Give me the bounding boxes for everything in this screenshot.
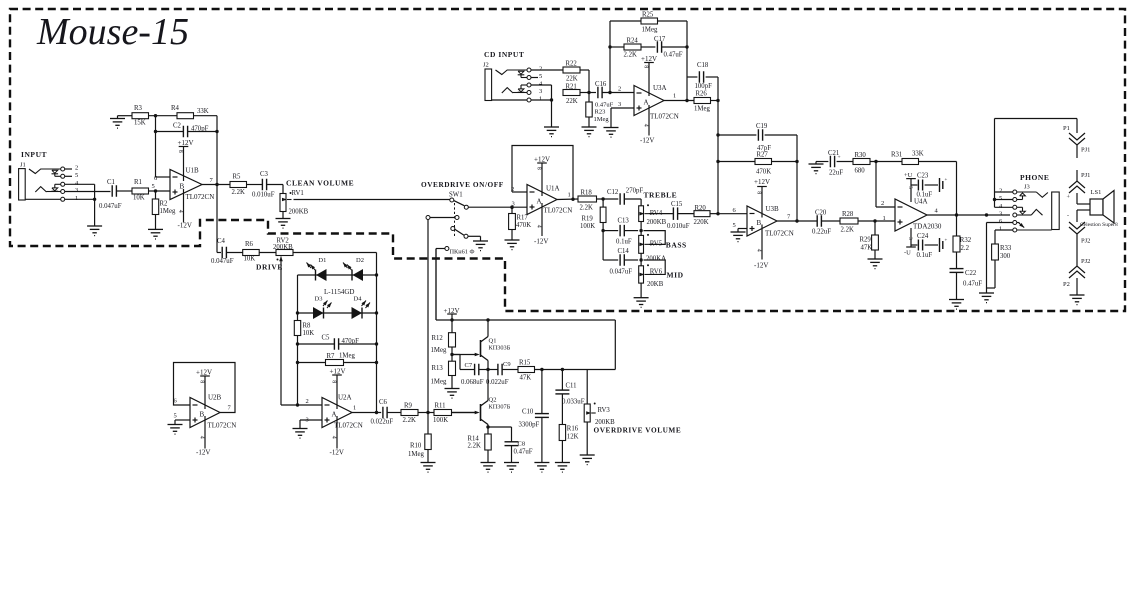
ground under R23 <box>582 127 597 137</box>
svg-text:2: 2 <box>539 66 542 73</box>
svg-text:A: A <box>644 99 649 107</box>
diode row1 wire <box>298 273 379 276</box>
label Celestion <box>1067 213 1118 228</box>
svg-text:R3: R3 <box>134 105 143 112</box>
svg-text:D1: D1 <box>318 257 326 264</box>
svg-text:R13: R13 <box>432 365 444 372</box>
svg-text:R9: R9 <box>404 403 413 410</box>
connector PJ1 <box>1069 145 1085 193</box>
svg-text:PJ2: PJ2 <box>1081 238 1090 245</box>
svg-text:1Meg: 1Meg <box>339 353 355 360</box>
svg-text:270pF: 270pF <box>626 188 644 195</box>
label BASS <box>666 240 687 249</box>
capacitor C9 0.022uF <box>486 361 518 386</box>
capacitor C7 0.068uF <box>452 355 490 387</box>
svg-text:R10: R10 <box>410 443 422 450</box>
ground under RV6 <box>634 298 649 308</box>
svg-text:4: 4 <box>177 210 183 213</box>
svg-text:-12V: -12V <box>330 449 344 457</box>
power rails U1B <box>177 139 194 230</box>
switch SW1 pole2 throw2 <box>436 247 449 321</box>
svg-text:8: 8 <box>177 150 183 153</box>
svg-text:+12V: +12V <box>641 55 657 63</box>
feedback left rail U3A <box>608 21 611 93</box>
svg-text:1: 1 <box>883 215 886 222</box>
resistor R2 1Meg <box>152 191 176 229</box>
svg-text:R26: R26 <box>696 91 708 98</box>
svg-text:1: 1 <box>539 96 542 103</box>
svg-text:R21: R21 <box>566 84 577 91</box>
wire RV2 right down to U2A out <box>375 253 378 415</box>
svg-text:R6: R6 <box>245 241 254 248</box>
svg-text:U3A: U3A <box>653 84 667 92</box>
wire U1B out down to C4 <box>217 185 221 253</box>
svg-text:1Meg: 1Meg <box>431 347 447 354</box>
svg-text:C5: C5 <box>322 335 331 342</box>
svg-text:R27: R27 <box>757 152 769 159</box>
power rails U2A <box>330 368 346 457</box>
svg-text:2.2K: 2.2K <box>580 205 593 212</box>
connector PJ2 lower <box>1069 234 1090 278</box>
svg-text:33K: 33K <box>197 108 209 115</box>
svg-text:1: 1 <box>568 192 571 199</box>
svg-text:TREBLE: TREBLE <box>644 191 678 200</box>
svg-text:J3: J3 <box>1024 184 1030 191</box>
feedback loop U1A <box>512 146 573 200</box>
svg-text:470K: 470K <box>516 222 531 229</box>
svg-text:1Meg: 1Meg <box>594 116 610 123</box>
label CLEAN VOLUME <box>286 179 354 188</box>
connector PJ2 upper <box>1069 218 1090 245</box>
svg-text:C12: C12 <box>607 189 619 196</box>
svg-text:U4A: U4A <box>914 198 928 206</box>
svg-text:R17: R17 <box>517 215 529 222</box>
resistor R27 470K <box>718 152 799 176</box>
svg-text:BASS: BASS <box>666 240 687 249</box>
svg-text:C2: C2 <box>173 123 182 130</box>
svg-text:+U: +U <box>904 172 913 179</box>
svg-text:4: 4 <box>755 249 761 252</box>
pin2 label U3A <box>618 86 621 93</box>
capacitor C17 0.47uF <box>654 36 687 59</box>
svg-text:C6: C6 <box>379 399 388 406</box>
svg-text:R8: R8 <box>303 323 312 330</box>
svg-text:3: 3 <box>75 187 78 194</box>
ground under R29 <box>868 259 883 269</box>
ground at U3B pin5 <box>731 232 746 242</box>
label DRIVE <box>256 263 283 272</box>
svg-text:INPUT: INPUT <box>21 150 47 159</box>
svg-text:1Meg: 1Meg <box>160 208 176 215</box>
svg-text:1: 1 <box>353 405 356 412</box>
svg-text:1Meg: 1Meg <box>694 106 710 113</box>
svg-text:0.010uF: 0.010uF <box>252 192 275 199</box>
svg-text:8: 8 <box>198 380 204 383</box>
svg-text:R5: R5 <box>233 174 242 181</box>
wire into U4A pin2 <box>876 162 895 208</box>
svg-text:R4: R4 <box>171 105 180 112</box>
svg-text:R28: R28 <box>842 211 854 218</box>
svg-text:A: A <box>537 198 542 206</box>
feedback wire U1B <box>156 116 218 185</box>
resistor R24 2.2K <box>610 38 655 59</box>
svg-text:2: 2 <box>999 188 1002 195</box>
wire into U2A pin2 <box>281 398 322 405</box>
op-amp U1A <box>511 185 578 215</box>
svg-text:100K: 100K <box>580 223 595 230</box>
switch SW1 pole1 <box>450 198 527 209</box>
ground at R3 <box>110 116 125 128</box>
svg-text:200KB: 200KB <box>647 219 667 226</box>
svg-text:8: 8 <box>330 380 336 383</box>
title Mouse-15 <box>36 11 189 53</box>
resistor R9 2.2K <box>401 403 434 424</box>
capacitor C12 270pF <box>607 188 643 205</box>
capacitor C20 0.22uF <box>812 210 840 236</box>
svg-text:200KB: 200KB <box>273 244 293 251</box>
resistor R1 10K <box>132 179 170 202</box>
svg-text:C4: C4 <box>217 238 226 245</box>
potentiometer RV4 200KB (treble) <box>639 199 673 235</box>
svg-text:TL072CN: TL072CN <box>334 422 363 430</box>
svg-text:C24: C24 <box>917 233 929 240</box>
svg-text:Q2: Q2 <box>489 397 497 404</box>
resistor R25 1Meg <box>610 12 687 34</box>
op-amp U1B <box>154 167 230 202</box>
LED net left rail <box>296 275 299 407</box>
svg-text:1Meg: 1Meg <box>408 451 424 458</box>
svg-text:+: + <box>945 239 948 244</box>
resistor R30 680 <box>853 152 902 175</box>
svg-text:R29: R29 <box>860 237 872 244</box>
ground under speaker chain <box>1070 295 1085 305</box>
svg-text:1: 1 <box>999 226 1002 233</box>
label MID <box>667 271 684 280</box>
svg-text:C9: C9 <box>503 361 511 368</box>
svg-text:-12V: -12V <box>196 449 210 457</box>
resistor R18 2.2K <box>578 190 618 212</box>
svg-text:J1: J1 <box>20 162 26 169</box>
capacitor C11 0.033uF <box>555 370 584 425</box>
svg-text:U1A: U1A <box>546 185 560 193</box>
op-amp U3B <box>733 205 818 238</box>
feedback right rail U3B <box>795 135 798 223</box>
ground at C21 <box>809 162 824 174</box>
svg-text:C13: C13 <box>618 218 630 225</box>
capacitor C3 0.010uF <box>252 171 283 199</box>
svg-text:U2B: U2B <box>208 394 222 402</box>
resistor R8 10K <box>294 321 314 338</box>
ground under R13 <box>445 389 460 399</box>
wire J3 pin6 to ground <box>986 223 988 294</box>
svg-text:100pF: 100pF <box>695 83 713 90</box>
svg-text:12K: 12K <box>567 434 579 441</box>
svg-text:5: 5 <box>999 195 1002 202</box>
svg-text:R16: R16 <box>567 426 579 433</box>
capacitor C2 470pF <box>154 123 219 138</box>
resistor R32 2.2 <box>953 215 972 269</box>
svg-text:0.47uF: 0.47uF <box>664 52 683 59</box>
svg-text:200KA: 200KA <box>646 256 666 263</box>
power rails U1A <box>534 156 550 246</box>
switch SW1 mech link <box>454 203 456 236</box>
svg-text:C23: C23 <box>917 173 929 180</box>
LED D3 <box>313 296 333 320</box>
svg-text:5: 5 <box>174 413 177 420</box>
ground under C22 <box>949 300 964 310</box>
power +12V at Q1 <box>444 307 460 333</box>
connector P2 <box>1063 278 1077 295</box>
wire J3 to speaker top <box>995 119 1078 208</box>
svg-text:680: 680 <box>855 168 866 175</box>
svg-text:10K: 10K <box>303 330 315 337</box>
svg-text:C16: C16 <box>595 81 607 88</box>
ground wire U3A pin3 <box>604 108 635 137</box>
svg-text:TL072CN: TL072CN <box>544 207 573 215</box>
resistor R21 22K <box>563 84 596 106</box>
resistor R28 2.2K <box>840 211 895 234</box>
ground under RV1 <box>276 219 291 229</box>
svg-text:OVERDRIVE ON/OFF: OVERDRIVE ON/OFF <box>421 180 504 189</box>
svg-text:J2: J2 <box>483 62 489 69</box>
svg-text:RV3: RV3 <box>598 407 611 414</box>
switch SW1 pole2 <box>451 227 481 242</box>
svg-text:C14: C14 <box>618 248 630 255</box>
ground under C10 <box>534 463 549 473</box>
svg-text:DRIVE: DRIVE <box>256 263 283 272</box>
ground at SW1 <box>473 241 488 251</box>
svg-text:22K: 22K <box>566 98 578 105</box>
label PKn61 <box>450 249 475 256</box>
svg-text:C17: C17 <box>654 36 666 43</box>
power rails U3B <box>754 178 770 270</box>
capacitor C13 0.1uF <box>601 218 642 246</box>
feedback right rail U3A <box>685 21 688 101</box>
svg-text:R18: R18 <box>581 190 593 197</box>
svg-text:0.068uF: 0.068uF <box>461 379 484 386</box>
svg-text:B: B <box>200 411 205 419</box>
svg-text:L-1154GD: L-1154GD <box>324 288 354 296</box>
ground under J3 <box>979 293 994 303</box>
svg-text:5: 5 <box>907 186 913 189</box>
svg-text:0.047uF: 0.047uF <box>610 268 633 275</box>
svg-text:2.2K: 2.2K <box>468 443 481 450</box>
ground at U2B pin5 <box>168 425 183 435</box>
resistor R17 470K <box>509 206 532 241</box>
svg-text:5: 5 <box>75 172 78 179</box>
resistor R33 300 <box>987 230 1012 288</box>
potentiometer RV2 200KB (drive) <box>273 238 377 406</box>
svg-text:C3: C3 <box>260 171 269 178</box>
label -U and C24 <box>904 228 948 259</box>
svg-text:C10: C10 <box>522 409 534 416</box>
svg-text:2: 2 <box>881 200 884 207</box>
capacitor C1 0.047uF <box>99 179 132 210</box>
svg-text:C8: C8 <box>518 441 526 448</box>
resistor R26 1Meg <box>694 91 720 113</box>
ground under R14 <box>481 463 496 473</box>
capacitor C4 0.047uF <box>211 238 243 265</box>
svg-text:КП307Б: КП307Б <box>489 404 511 411</box>
ground under R10 <box>421 463 436 473</box>
potentiometer RV1 200KB (clean volume) <box>280 190 452 219</box>
svg-text:+12V: +12V <box>534 156 550 164</box>
svg-text:R1: R1 <box>134 179 142 186</box>
svg-text:3: 3 <box>539 88 542 95</box>
svg-text:P2: P2 <box>1063 281 1070 288</box>
connector P1 <box>1063 119 1085 146</box>
ground under C8 <box>504 463 519 473</box>
LED D2 <box>342 257 364 281</box>
svg-text:1: 1 <box>673 93 676 100</box>
svg-text:0.47uF: 0.47uF <box>595 102 614 109</box>
svg-text:-12V: -12V <box>534 238 548 246</box>
label PHONE <box>1020 173 1049 191</box>
svg-text:1Meg: 1Meg <box>431 379 447 386</box>
svg-text:U2A: U2A <box>338 394 352 402</box>
svg-text:RV1: RV1 <box>292 190 304 197</box>
svg-text:C1: C1 <box>107 179 115 186</box>
svg-text:C22: C22 <box>965 270 977 277</box>
label TREBLE <box>644 191 678 200</box>
svg-text:33K: 33K <box>912 151 924 158</box>
LED D1 <box>305 257 326 281</box>
svg-text:47K: 47K <box>861 245 873 252</box>
svg-text:4: 4 <box>330 436 336 439</box>
op-amp U4A TDA2030 <box>883 198 1011 232</box>
svg-text:0.022uF: 0.022uF <box>486 379 509 386</box>
svg-text:470pF: 470pF <box>342 338 360 345</box>
svg-text:R30: R30 <box>855 152 867 159</box>
svg-text:LS1: LS1 <box>1091 189 1102 196</box>
potentiometer RV5 200KA (bass) <box>639 231 666 266</box>
svg-text:0.47uF: 0.47uF <box>514 449 533 456</box>
svg-text:U3B: U3B <box>766 205 780 213</box>
svg-text:0.47uF: 0.47uF <box>963 281 982 288</box>
svg-text:1: 1 <box>75 195 78 202</box>
label OVERDRIVE VOLUME <box>594 426 682 435</box>
svg-text:15K: 15K <box>134 120 146 127</box>
svg-text:0.1uF: 0.1uF <box>917 192 933 199</box>
svg-text:R25: R25 <box>642 12 654 19</box>
svg-text:C19: C19 <box>756 123 768 130</box>
svg-text:22K: 22K <box>566 76 578 83</box>
svg-text:C18: C18 <box>697 62 709 69</box>
resistor R16 12K <box>559 425 579 463</box>
label SW1 <box>449 192 463 199</box>
svg-text:C15: C15 <box>671 201 683 208</box>
transistor Q2 KP307B <box>452 370 511 429</box>
svg-text:2.2K: 2.2K <box>232 189 245 196</box>
svg-text:3: 3 <box>907 237 913 240</box>
CD input jack J2 <box>483 50 563 127</box>
svg-text:8: 8 <box>535 167 541 170</box>
svg-text:4: 4 <box>642 124 648 127</box>
svg-text:2.2K: 2.2K <box>624 52 637 59</box>
svg-text:PHONE: PHONE <box>1020 173 1049 182</box>
resistor R4 33K <box>171 105 217 119</box>
resistor R14 2.2K <box>468 427 492 463</box>
svg-text:+: + <box>945 178 948 183</box>
capacitor C14 0.047uF <box>603 248 643 275</box>
label L-1154GD <box>324 288 354 296</box>
svg-text:Q1: Q1 <box>489 338 497 345</box>
label PJ1 upper <box>1081 147 1090 154</box>
svg-text:R2: R2 <box>160 201 169 208</box>
resistor R31 33K <box>891 151 958 217</box>
svg-text:P1: P1 <box>1063 125 1070 132</box>
svg-text:R20: R20 <box>695 205 707 212</box>
LED D4 <box>352 296 372 320</box>
ground under R16 <box>555 463 570 473</box>
svg-text:3300pF: 3300pF <box>519 422 540 429</box>
svg-text:PJ1: PJ1 <box>1081 172 1090 179</box>
resistor R12 1Meg <box>431 333 456 362</box>
svg-text:D4: D4 <box>354 296 363 303</box>
svg-text:5: 5 <box>733 222 736 229</box>
svg-text:8: 8 <box>642 65 648 68</box>
capacitor C18 100pF <box>687 62 718 101</box>
wire overdrive rail down <box>614 320 616 370</box>
svg-text:+12V: +12V <box>178 139 194 147</box>
svg-text:0.047uF: 0.047uF <box>99 203 122 210</box>
svg-text:D2: D2 <box>356 257 364 264</box>
svg-text:TL072CN: TL072CN <box>765 230 794 238</box>
svg-text:1Meg: 1Meg <box>642 27 658 34</box>
svg-text:4: 4 <box>535 225 541 228</box>
svg-text:Celestion Super8: Celestion Super8 <box>1080 222 1118 228</box>
resistor R29 47K <box>860 221 879 259</box>
svg-text:TL072CN: TL072CN <box>208 422 237 430</box>
svg-text:PJ1: PJ1 <box>1081 147 1090 154</box>
op-amp U2A <box>300 394 381 430</box>
resistor R6 10K <box>243 241 276 263</box>
svg-text:5: 5 <box>539 73 542 80</box>
ground under RV3 <box>580 455 595 465</box>
svg-text:300: 300 <box>1000 253 1011 260</box>
svg-text:+12V: +12V <box>330 368 346 376</box>
resistor R3 15K <box>118 105 178 127</box>
svg-text:TDA2030: TDA2030 <box>913 223 942 231</box>
svg-text:3: 3 <box>618 101 621 108</box>
svg-text:R32: R32 <box>960 237 972 244</box>
svg-text:C11: C11 <box>566 383 577 390</box>
svg-text:CLEAN VOLUME: CLEAN VOLUME <box>286 179 354 188</box>
potentiometer RV3 200KB (overdrive volume) <box>584 370 615 456</box>
svg-text:-: - <box>1067 213 1069 219</box>
svg-text:0.22uF: 0.22uF <box>812 229 831 236</box>
svg-text:0.010uF: 0.010uF <box>667 223 690 230</box>
svg-text:2: 2 <box>75 165 78 172</box>
svg-text:R19: R19 <box>582 216 594 223</box>
capacitor C8 0.47uF <box>488 427 533 463</box>
node rail into U3B <box>716 101 747 214</box>
svg-text:CD INPUT: CD INPUT <box>484 50 524 59</box>
capacitor C10 3300pF <box>519 370 549 463</box>
svg-text:OVERDRIVE VOLUME: OVERDRIVE VOLUME <box>594 426 682 435</box>
svg-text:R12: R12 <box>432 335 444 342</box>
svg-text:R7: R7 <box>327 353 336 360</box>
svg-text:-12V: -12V <box>640 137 654 145</box>
svg-text:R22: R22 <box>566 61 578 68</box>
svg-text:-12V: -12V <box>754 262 768 270</box>
svg-text:+12V: +12V <box>196 369 212 377</box>
svg-text:3: 3 <box>999 211 1002 218</box>
svg-text:2: 2 <box>618 86 621 93</box>
svg-text:2.2: 2.2 <box>961 245 970 252</box>
svg-text:R11: R11 <box>435 403 446 410</box>
ground under J2 <box>544 127 559 137</box>
